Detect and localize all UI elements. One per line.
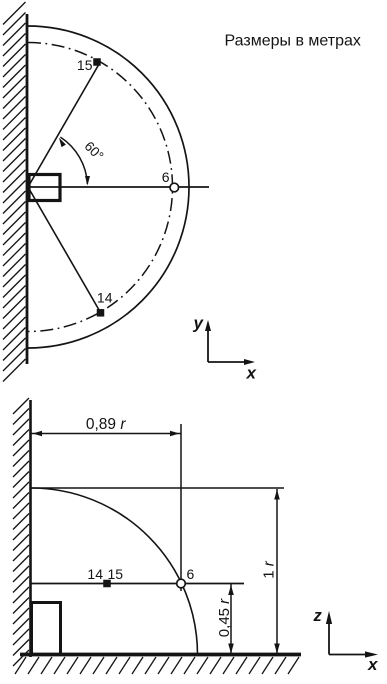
wall hatching (bottom figure) <box>13 398 29 666</box>
svg-text:y: y <box>193 314 205 333</box>
loudspeaker box (bottom figure) <box>32 603 61 655</box>
svg-text:x: x <box>246 364 258 383</box>
svg-text:6: 6 <box>162 169 170 185</box>
svg-text:14: 14 <box>87 566 103 582</box>
svg-text:15: 15 <box>77 57 93 73</box>
svg-text:15: 15 <box>108 566 124 582</box>
svg-text:6: 6 <box>187 566 195 582</box>
quarter arc radius r <box>31 488 198 655</box>
svg-text:0,89 r: 0,89 r <box>86 416 126 433</box>
svg-text:0,45 r: 0,45 r <box>216 598 233 637</box>
wall hatching (top figure) <box>3 2 26 382</box>
horizontal line through points 14,15,6 <box>31 583 244 585</box>
point 14 marker <box>97 309 105 317</box>
measurement radius arc (dash-dot) <box>28 43 173 332</box>
z axis (bottom figure) <box>328 621 330 655</box>
dimension line 1r <box>276 489 278 654</box>
point 6 marker <box>170 183 179 192</box>
floor line <box>20 653 301 657</box>
loudspeaker box (top figure) <box>29 175 60 201</box>
radius line to point 14 <box>28 187 100 312</box>
outer semicircle arc <box>28 26 189 348</box>
wall line (bottom figure) <box>29 400 32 657</box>
ceiling reference line at height 1r <box>31 487 284 489</box>
horizontal radius line to point 6 <box>28 186 209 188</box>
point 6 marker (bottom) <box>177 579 186 588</box>
points 14,15 marker <box>103 580 111 588</box>
svg-text:z: z <box>313 607 323 625</box>
floor hatching <box>15 657 299 674</box>
svg-text:14: 14 <box>97 290 113 306</box>
dimension line 0.89r <box>31 433 181 435</box>
angle dimension arc 60 deg <box>60 137 87 184</box>
x axis (bottom figure) <box>329 654 369 656</box>
radius line to point 15 <box>28 62 100 187</box>
svg-text:Размеры в метрах: Размеры в метрах <box>225 33 361 50</box>
point 15 marker <box>93 58 101 66</box>
extension line through point 6 <box>180 424 182 591</box>
angle arc arrowhead top <box>59 138 66 147</box>
y axis (top figure) <box>207 329 209 362</box>
angle arc arrowhead bottom <box>85 176 90 186</box>
svg-text:1 r: 1 r <box>261 560 278 579</box>
dimension line 0.45r <box>230 584 232 654</box>
svg-text:x: x <box>367 655 379 674</box>
wall line (top figure) <box>26 14 29 364</box>
x axis (top figure) <box>208 361 247 363</box>
